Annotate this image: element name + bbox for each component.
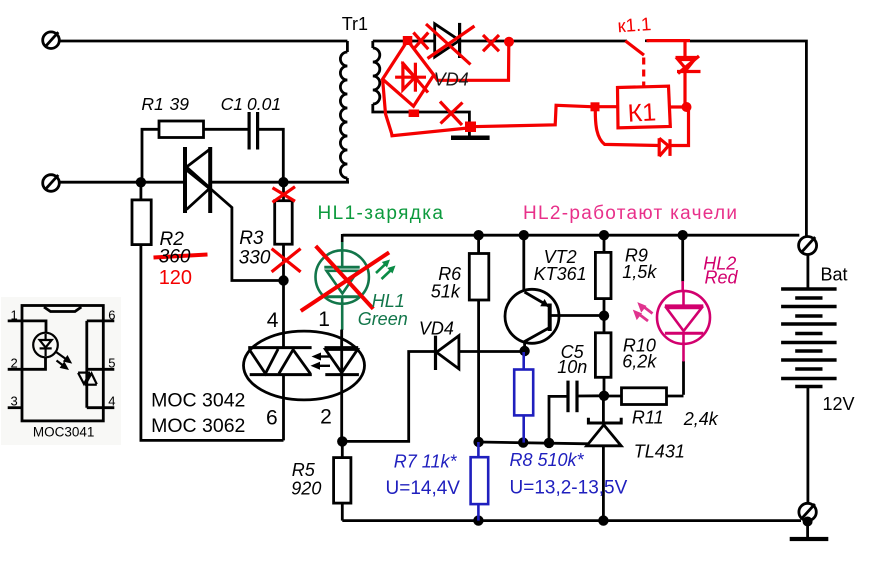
inset triac: [78, 373, 97, 385]
terminal X1 (mains input top): [43, 32, 60, 49]
transformer Tr1 secondary winding: [373, 41, 470, 136]
red X over black diode VD4: [426, 24, 475, 65]
red bridge rectifier (added): [383, 41, 434, 107]
red node: on ground line: [465, 122, 476, 133]
red X on ground wire: [440, 102, 463, 126]
MOC3041 datasheet inset: [1, 297, 121, 445]
red node: bridge AC bottom on wire: [409, 110, 420, 118]
red X left of diode: [413, 33, 428, 50]
transistor VT2 KT361: [505, 235, 604, 351]
svg-text:39: 39: [170, 94, 190, 114]
svg-text:5: 5: [108, 356, 115, 371]
red node: bridge AC top on wire: [403, 36, 413, 45]
resistor R10: [595, 316, 611, 396]
svg-text:C1: C1: [221, 94, 243, 114]
svg-text:120: 120: [159, 267, 192, 289]
svg-text:Bat: Bat: [821, 265, 848, 285]
node: junction mains/R1/R2: [136, 177, 146, 187]
terminal battery -: [799, 503, 816, 537]
optocoupler U1 MOC3062 body: [244, 331, 365, 400]
node: R9 top on rail: [599, 230, 609, 240]
svg-text:VD4: VD4: [434, 70, 469, 90]
inset notch: [44, 307, 81, 312]
svg-text:2: 2: [320, 406, 332, 429]
svg-text:к1.1: к1.1: [617, 13, 652, 36]
svg-text:1,5k: 1,5k: [622, 262, 657, 282]
node: VT2 base / R9 / R10: [599, 311, 609, 321]
resistor R2: [132, 182, 284, 440]
red node right of K1: [682, 102, 692, 112]
red dashed link contact to coil: [642, 58, 645, 87]
svg-text:TL431: TL431: [634, 442, 685, 462]
svg-text:К1: К1: [627, 98, 657, 127]
node: pin2/R5/VD4: [337, 436, 347, 446]
svg-text:R5: R5: [292, 460, 316, 480]
node: R10/C5/R11/TL431: [599, 391, 609, 401]
capacitor C5: [549, 381, 604, 443]
wire: bottom mains to triac: [59, 181, 184, 184]
red wire: bridge minus to ground node: [383, 79, 468, 136]
red wire segment on top line: [647, 39, 691, 42]
svg-text:MOC 3062: MOC 3062: [151, 415, 245, 437]
bottom rail: [342, 519, 801, 522]
svg-text:HL1-зарядка: HL1-зарядка: [318, 203, 445, 224]
red X over HL1: [301, 246, 389, 311]
svg-text:12V: 12V: [823, 394, 855, 414]
inset DIP body: [22, 306, 103, 421]
red wire: ground node to K1: [471, 105, 591, 126]
svg-text:2: 2: [11, 356, 18, 371]
svg-text:U=14,4V: U=14,4V: [386, 478, 461, 499]
inset pin 5: [87, 368, 115, 371]
red freewheel diode across K1: [595, 109, 688, 156]
wire: opto pin2 down to node: [340, 375, 343, 442]
svg-text:MOC3041: MOC3041: [33, 424, 95, 439]
svg-text:Green: Green: [358, 309, 408, 329]
svg-text:1: 1: [318, 308, 330, 331]
HL1 light arrows (green): [376, 260, 396, 280]
wire: secondary top to diode: [373, 40, 435, 43]
capacitor C1: [249, 112, 283, 182]
svg-text:R11: R11: [632, 407, 664, 427]
diode VD4 (low-battery detect): [436, 336, 525, 370]
svg-text:MOC 3042: MOC 3042: [151, 389, 245, 411]
transformer Tr1 primary winding: [340, 41, 347, 182]
wire: HL2 top lead: [681, 235, 684, 281]
wire: triac to transformer primary bottom: [211, 181, 349, 184]
wire: optocoupler pin 6 up from bottom wire: [282, 375, 285, 441]
opto internal LED: [325, 348, 359, 375]
ground (secondary): [451, 136, 490, 141]
node: VT2 emitter on top rail: [519, 230, 529, 240]
node: TL431 anode on bottom rail: [598, 515, 608, 525]
node: VT2 collector / VD4 / R8: [519, 346, 529, 356]
wire: node to optocoupler pin 4: [282, 281, 285, 348]
wire net A: pin2 node to VD4 riser: [342, 352, 435, 442]
node: gate/R3/pin4 junction: [278, 275, 288, 285]
node: R8 bottom: [518, 437, 528, 447]
wire: triac gate to R3 node: [211, 189, 284, 281]
svg-text:HL1: HL1: [372, 291, 405, 311]
svg-text:Tr1: Tr1: [342, 14, 368, 34]
red wire: K1 right to node: [670, 105, 686, 108]
svg-text:VD4: VD4: [419, 319, 454, 339]
node: R6/R7: [473, 437, 483, 447]
inset LED: [33, 333, 58, 358]
HL2 light arrows (magenta): [633, 302, 653, 321]
top rail of charger circuit: [343, 234, 800, 237]
wire: relay contact to battery +: [690, 41, 806, 237]
inset pin 4: [87, 406, 115, 409]
diode VD4 (crossed out): [435, 23, 460, 58]
node: R7 bottom on bottom rail: [473, 515, 483, 525]
red wire: node into K1: [595, 105, 618, 108]
svg-text:6: 6: [266, 407, 278, 430]
resistor R7 (blue): [471, 442, 489, 521]
svg-text:HL2-работают качели: HL2-работают качели: [523, 203, 738, 224]
svg-text:KT361: KT361: [534, 264, 587, 284]
node: HL2 top on rail: [678, 230, 688, 240]
node: R6 top on rail: [473, 230, 483, 240]
inset arrows: [56, 352, 72, 370]
resistor R3: [275, 182, 293, 280]
inset pin 1: [8, 321, 46, 333]
red X right of diode: [483, 35, 499, 51]
wire: diode to relay contact: [460, 40, 627, 43]
relay coil K1 (red box): [618, 86, 671, 128]
svg-text:4: 4: [267, 309, 279, 332]
inset inner rail: [85, 321, 88, 408]
ground (battery minus): [790, 537, 829, 541]
red node left of K1: [591, 102, 600, 111]
red wire: bridge plus to battery wire: [434, 42, 509, 80]
svg-text:U=13,2-13,5V: U=13,2-13,5V: [510, 478, 628, 499]
triac VS1: [185, 147, 210, 213]
LED HL1 (green, charge indicator): [316, 242, 369, 331]
svg-text:Red: Red: [705, 268, 739, 288]
terminal X2 (mains input bottom): [43, 175, 60, 192]
red X below R3: [272, 249, 301, 272]
svg-text:360: 360: [159, 247, 191, 268]
wire: opto pin1 (internal vertical): [340, 330, 343, 375]
relay contact K1.1 (red blade): [625, 41, 644, 55]
inset pin 6: [87, 319, 115, 322]
inset pin 3: [8, 406, 22, 409]
wire: HL2 bottom lead to R11: [682, 361, 685, 395]
svg-text:R7 11k*: R7 11k*: [394, 452, 458, 472]
resistor R9: [595, 235, 611, 316]
wire: top mains to transformer primary: [59, 40, 347, 43]
svg-text:10n: 10n: [557, 357, 587, 377]
red strikethrough on 360: [154, 255, 208, 258]
svg-text:R1: R1: [141, 94, 163, 114]
svg-text:51k: 51k: [431, 282, 461, 302]
resistor R8 (blue): [514, 352, 533, 443]
terminal battery +: [799, 237, 817, 255]
opto internal triac: [248, 348, 312, 375]
wire: rail corner down to HL1: [340, 234, 343, 348]
node: C5 branch: [544, 438, 554, 448]
red diode to battery line: [676, 41, 701, 107]
red X above R3: [273, 187, 296, 203]
svg-text:4: 4: [108, 393, 115, 408]
inset pin labels: [11, 307, 116, 408]
svg-text:R8 510k*: R8 510k*: [510, 450, 585, 470]
svg-text:920: 920: [291, 479, 321, 499]
svg-text:3: 3: [11, 393, 18, 408]
svg-text:6: 6: [108, 307, 115, 322]
svg-text:0.01: 0.01: [247, 94, 281, 114]
resistor R6: [469, 235, 489, 442]
node: junction C1/R3: [278, 177, 288, 187]
opto light arrows: [311, 353, 332, 370]
inset pin 2: [8, 358, 46, 370]
svg-text:6,2k: 6,2k: [622, 352, 657, 372]
battery Bat 12V: [781, 255, 837, 504]
resistor R11: [604, 388, 684, 405]
resistor R5: [334, 441, 351, 520]
red node: on battery wire: [504, 37, 514, 47]
LED HL2 (magenta, swing works indicator): [657, 281, 710, 362]
divider rail net B: [479, 442, 589, 444]
svg-text:330: 330: [239, 248, 271, 269]
svg-text:R3: R3: [239, 228, 264, 249]
svg-text:1: 1: [11, 307, 18, 322]
svg-text:2,4k: 2,4k: [683, 409, 719, 429]
TL431 shunt regulator: [587, 396, 622, 521]
resistor R1: [142, 121, 249, 182]
